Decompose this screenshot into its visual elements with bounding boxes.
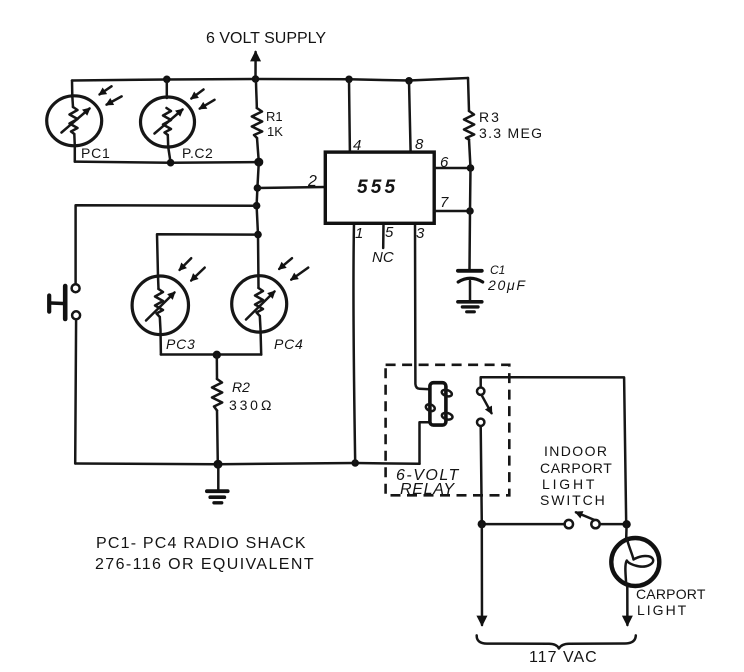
- junction top rail at pin4: [345, 76, 353, 84]
- junction pin6 on R3 line: [467, 164, 475, 172]
- wire node A main vertical: [257, 162, 259, 276]
- resistor R3: [464, 111, 474, 269]
- junction top rail at PC2: [163, 76, 171, 84]
- svg-text:1K: 1K: [267, 124, 283, 139]
- junction ground tap: [214, 460, 223, 469]
- switch S2 contact right: [591, 520, 599, 528]
- wire PC3/PC4 bottoms: [161, 353, 261, 356]
- svg-text:PC4: PC4: [274, 336, 304, 352]
- svg-text:P.C2: P.C2: [182, 145, 213, 161]
- pushbutton S1: [49, 284, 80, 319]
- junction top rail at pin8: [405, 77, 413, 85]
- svg-text:SWITCH: SWITCH: [540, 492, 607, 508]
- lamp carport light: [611, 524, 659, 625]
- junction R2 top: [213, 351, 221, 359]
- svg-text:RELAY: RELAY: [400, 481, 455, 498]
- node VCC top supply rail wire: [72, 78, 468, 81]
- svg-text:LIGHT: LIGHT: [542, 476, 597, 492]
- wire pin 5 stub: [382, 223, 385, 248]
- svg-text:INDOOR: INDOOR: [544, 443, 608, 459]
- junction pin7 on R3 line: [466, 207, 474, 215]
- wire pin 8: [409, 81, 411, 152]
- junction pin1 bottom: [351, 459, 359, 467]
- svg-text:3: 3: [416, 225, 425, 242]
- svg-text:8: 8: [415, 136, 424, 153]
- junction switch row left: [478, 520, 486, 528]
- wire to PC3: [157, 234, 258, 276]
- ground below R2: [207, 464, 228, 503]
- svg-text:7: 7: [440, 194, 449, 211]
- photocell PC2: [141, 79, 215, 162]
- wire relay lower contact down: [481, 426, 482, 524]
- wire pin 4: [348, 79, 351, 152]
- svg-text:R2: R2: [232, 379, 250, 395]
- wire top-left drop to PC1: [71, 81, 74, 97]
- junction R1 bottom node A: [254, 158, 263, 167]
- junction top rail at supply: [252, 75, 260, 83]
- svg-text:LIGHT: LIGHT: [637, 602, 688, 618]
- svg-text:NC: NC: [372, 249, 394, 266]
- svg-text:R1: R1: [266, 109, 283, 124]
- brace 117 VAC: [477, 635, 636, 648]
- svg-text:117 VAC: 117 VAC: [529, 649, 598, 666]
- wire switch row left: [482, 523, 565, 526]
- op-amp U1 555 timer box: [325, 152, 434, 223]
- svg-text:PC3: PC3: [166, 336, 196, 352]
- wire pushbutton to bottom rail: [74, 320, 77, 464]
- wire left 117VAC drop: [481, 524, 484, 625]
- wire bottom rail riser to relay coil: [420, 422, 430, 464]
- relay contact top: [477, 388, 484, 395]
- 6 volt supply arrow: [254, 52, 257, 79]
- svg-text:C1: C1: [490, 263, 505, 277]
- svg-text:20μF: 20μF: [487, 277, 527, 293]
- wire pin 1 down: [353, 223, 355, 463]
- svg-text:1: 1: [355, 225, 363, 242]
- wire pin 7: [434, 210, 470, 213]
- junction PC3 tap: [254, 231, 262, 239]
- photocell PC1: [47, 86, 122, 161]
- junction switch row right: [622, 520, 630, 528]
- svg-text:CARPORT: CARPORT: [540, 460, 612, 476]
- junction pin2 tap: [254, 184, 262, 192]
- resistor R1: [252, 79, 262, 162]
- relay contact bottom: [477, 419, 484, 426]
- svg-text:PC1: PC1: [81, 145, 111, 161]
- photocell PC3: [132, 258, 205, 354]
- wire pin 2: [257, 187, 325, 188]
- switch S2 lever arrow: [576, 512, 595, 520]
- wire top-right drop to R3: [468, 78, 469, 111]
- wire pin 6: [434, 167, 470, 170]
- wire PC1/PC2 bottom to R1 bottom: [75, 162, 259, 163]
- wire bottom rail: [75, 463, 419, 464]
- switch S2 contact left: [565, 520, 573, 528]
- wire to pushbutton: [76, 205, 257, 284]
- svg-text:R3: R3: [479, 109, 501, 125]
- svg-text:330Ω: 330Ω: [229, 397, 274, 413]
- wire pin 3 down to relay coil: [415, 223, 430, 389]
- photocell PC4: [232, 258, 309, 354]
- svg-text:2: 2: [307, 173, 317, 190]
- relay armature arrow: [482, 396, 492, 413]
- svg-text:5: 5: [385, 224, 394, 241]
- ground below C1: [458, 302, 482, 312]
- svg-text:3.3 MEG: 3.3 MEG: [479, 125, 543, 141]
- junction pushbutton tap: [253, 202, 261, 210]
- relay K1 dashed box: [386, 365, 510, 496]
- svg-text:PC1- PC4 RADIO SHACK: PC1- PC4 RADIO SHACK: [96, 535, 307, 552]
- resistor R2: [212, 355, 222, 464]
- capacitor C1: [458, 271, 483, 301]
- relay coil: [425, 383, 453, 425]
- wire relay contact to right rail: [481, 377, 627, 524]
- svg-text:276-116 OR EQUIVALENT: 276-116 OR EQUIVALENT: [95, 556, 315, 573]
- junction PC2 bottom: [167, 159, 175, 167]
- svg-text:CARPORT: CARPORT: [636, 586, 706, 602]
- svg-text:4: 4: [353, 137, 361, 154]
- wire switch row right: [600, 523, 627, 526]
- svg-text:555: 555: [357, 177, 398, 198]
- svg-text:6 VOLT SUPPLY: 6 VOLT SUPPLY: [206, 30, 326, 47]
